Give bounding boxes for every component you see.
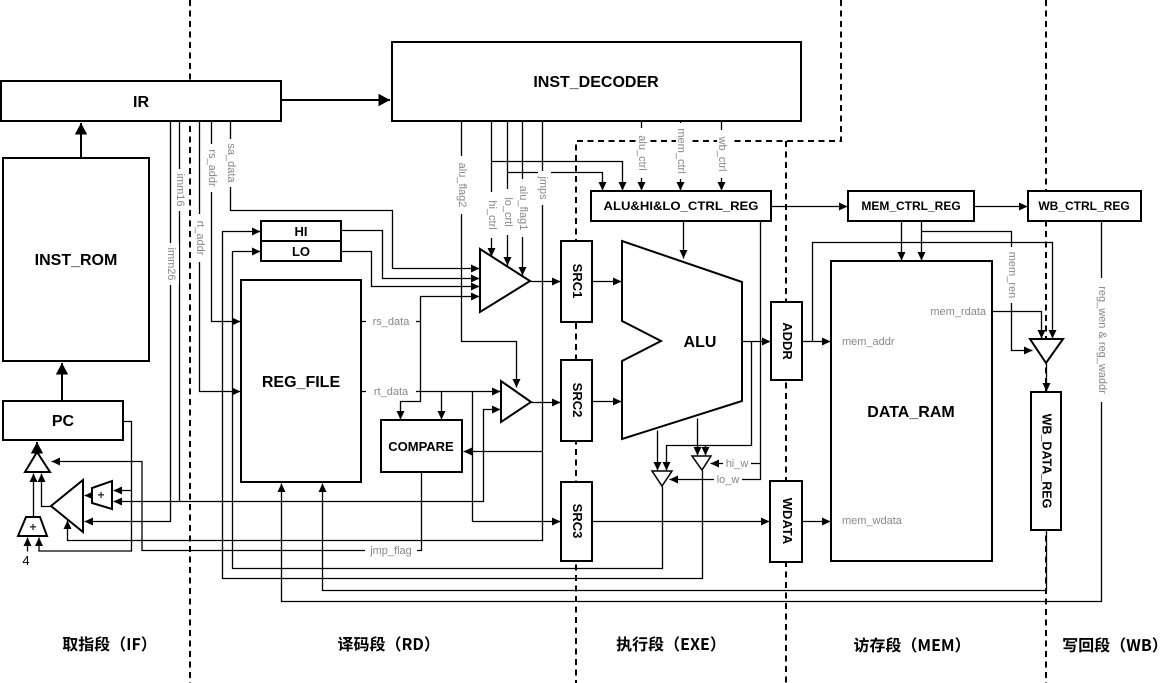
stage boundary dashed IF|RD (189, 0, 191, 683)
wire mem_ren to wb mux (922, 232, 1033, 351)
svg-text:lo_crtl: lo_crtl (502, 197, 514, 226)
wire hi_ctrl to src1mux (491, 122, 493, 257)
svg-text:ADDR: ADDR (780, 322, 795, 360)
svg-text:IR: IR (133, 94, 149, 111)
label rs_data (366, 315, 416, 328)
svg-text:hi_w: hi_w (726, 458, 749, 470)
label hi_w (723, 457, 751, 470)
wire branch-adder out to nextpc-mux (85, 495, 93, 497)
wire rt_data branch to SRC3 (473, 392, 561, 522)
register SRC1 (561, 241, 592, 322)
adder branch-adder (92, 481, 112, 509)
wire const 4 input (27, 538, 29, 552)
memory DATA_RAM (831, 261, 992, 561)
svg-text:mem_addr: mem_addr (842, 336, 895, 348)
svg-text:hi_ctrl: hi_ctrl (486, 200, 498, 229)
svg-text:alu_flag1: alu_flag1 (517, 186, 529, 231)
stage boundary dashed MEM|WB (1045, 0, 1047, 683)
wire rs_data to src1mux (362, 297, 480, 322)
register LO (261, 241, 341, 261)
mux pcmux (25, 452, 50, 472)
port labels rotated (165, 123, 1110, 402)
svg-text:lo_w: lo_w (717, 474, 740, 486)
svg-text:WDATA: WDATA (780, 498, 795, 545)
svg-text:HI: HI (295, 224, 308, 239)
adder plus4-adder (18, 517, 47, 536)
wire WDATA out to DATA_RAM (803, 521, 831, 523)
decoder INST_DECODER (392, 42, 801, 121)
wire SRC1 out to ALU (593, 281, 622, 283)
wire ALU out to ADDR (743, 341, 771, 343)
wire plus4-adder out to pcmux (33, 474, 35, 518)
svg-text:rt_addr: rt_addr (194, 221, 206, 256)
register HI (261, 221, 341, 241)
mux hiw mux (692, 456, 711, 470)
wire rs_addr to REG_FILE (212, 122, 241, 322)
mux src1mux (480, 249, 530, 312)
wire ctrlreg out to MEM_CTRL_REG (772, 206, 848, 208)
wire SRC2 out to ALU (593, 401, 622, 403)
wire jmps from decoder to nextpc-mux (68, 122, 543, 541)
svg-text:alu_ctrl: alu_ctrl (636, 135, 648, 170)
svg-text:reg_wen & reg_waddr: reg_wen & reg_waddr (1096, 286, 1108, 394)
label rt_addr (194, 214, 208, 262)
wire IR to INST_DECODER (282, 99, 391, 101)
label alu_flag2 (456, 156, 470, 214)
svg-text:mem_wdata: mem_wdata (842, 515, 903, 527)
wire LO out to src1mux (342, 252, 480, 287)
svg-text:WB_DATA_REG: WB_DATA_REG (1040, 414, 1054, 509)
svg-text:+: + (29, 520, 36, 534)
wire wb mux out to WB_DATA_REG (1046, 364, 1048, 392)
register WB_CTRL_REG (1028, 191, 1141, 221)
wire lo_crtl branch to ctrlreg (508, 173, 603, 191)
stage label 访存段（MEM） (854, 637, 960, 652)
stage label 写回段（WB） (1063, 637, 1157, 652)
wire mem_rdata to wb mux (993, 312, 1042, 339)
label alu_flag1 (517, 179, 531, 237)
wire MEM_CTRL_REG to DATA_RAM 2 (921, 222, 923, 261)
wire hiw mux out to HI (223, 232, 703, 579)
wire jmp_flag from COMPARE to pcmux select (52, 462, 422, 551)
register IR (1, 81, 281, 121)
wire imm16 to branch-adder (114, 501, 180, 503)
wire sa_data to src1mux (231, 122, 480, 269)
register SRC2 (561, 360, 592, 441)
svg-text:MEM_CTRL_REG: MEM_CTRL_REG (861, 199, 960, 213)
register ADDR (771, 302, 802, 380)
svg-text:rt_data: rt_data (374, 386, 409, 398)
mux wb mux (1030, 339, 1063, 363)
svg-text:DATA_RAM: DATA_RAM (867, 404, 954, 421)
comparator COMPARE (381, 420, 462, 472)
alu ALU (622, 241, 742, 439)
svg-text:PC: PC (52, 413, 75, 430)
svg-text:INST_ROM: INST_ROM (35, 252, 118, 269)
wire rt_addr to REG_FILE (200, 122, 241, 392)
svg-text:WB_CTRL_REG: WB_CTRL_REG (1038, 199, 1129, 213)
mux src2mux (501, 381, 531, 422)
wire alu_flag2 to src2mux (462, 122, 517, 388)
svg-text:alu_flag2: alu_flag2 (456, 163, 468, 208)
wire src1mux out to SRC1 (531, 281, 561, 283)
wire INST_ROM to IR (80, 123, 82, 158)
mux nextpc-mux (51, 480, 83, 532)
wire mem_ctrl to ctrlreg (680, 122, 682, 191)
wire rs_data branch to COMPARE (401, 322, 421, 420)
mux low mux (652, 471, 672, 486)
svg-text:SRC1: SRC1 (570, 264, 585, 299)
label mem_ren (1006, 247, 1020, 303)
wire ALU out branch to muxes (667, 342, 752, 471)
stage boundary dashed RD|EXE (576, 0, 841, 683)
label imm26 (165, 243, 179, 285)
label lo_w (714, 473, 742, 486)
svg-text:ALU: ALU (684, 334, 717, 351)
svg-text:ALU&HI&LO_CTRL_REG: ALU&HI&LO_CTRL_REG (604, 199, 759, 213)
wire addr bypass to wb mux (813, 243, 1053, 342)
wire lo_crtl to src1mux (507, 122, 509, 266)
wire ADDR out to DATA_RAM (803, 341, 831, 343)
svg-text:sa_data: sa_data (225, 143, 237, 183)
memory INST_ROM (3, 158, 149, 361)
svg-text:mem_ren: mem_ren (1006, 252, 1018, 298)
register WDATA (770, 481, 802, 562)
svg-text:SRC2: SRC2 (570, 383, 585, 418)
wire hi_ctrl branch to ctrlreg (492, 162, 623, 191)
wire hi_w control branch (711, 463, 761, 465)
svg-text:REG_FILE: REG_FILE (262, 374, 341, 391)
register MEM_CTRL_REG (848, 191, 974, 221)
svg-text:LO: LO (292, 244, 310, 259)
label mem_ctrl (675, 123, 689, 179)
label rt_data (366, 385, 416, 398)
svg-text:COMPARE: COMPARE (388, 439, 454, 454)
port labels horizontal (22, 306, 986, 568)
wire hi_w lo_w controls from ctrlreg (670, 222, 761, 480)
wire rt_data branch to COMPARE (441, 392, 443, 420)
svg-text:jmps: jmps (537, 175, 549, 200)
wire PC to INST_ROM (61, 363, 63, 401)
box titles (35, 74, 1130, 545)
label rs_addr (206, 144, 220, 192)
wire pcmux to PC (36, 442, 38, 452)
label jmp_flag (365, 543, 417, 557)
register SRC3 (561, 482, 592, 561)
svg-text:4: 4 (22, 553, 29, 568)
register file REG_FILE (241, 280, 361, 482)
register ALU&HI&LO_CTRL_REG (591, 191, 771, 221)
wire jmps branch to COMPARE (464, 451, 543, 453)
svg-text:+: + (97, 488, 104, 502)
svg-text:mem_rdata: mem_rdata (930, 306, 987, 318)
svg-text:imm16: imm16 (174, 173, 186, 206)
wire ALU to hiw mux (697, 419, 699, 456)
wire wb_ctrl to ctrlreg (721, 122, 723, 191)
wire imm26 to nextpc-mux (85, 122, 171, 522)
label wb_ctrl (716, 130, 730, 178)
wire HI out to src1mux (342, 231, 480, 279)
wire alu_flag1 to src1mux (522, 122, 524, 276)
wire reg_wen reg_waddr to REG_FILE (282, 222, 1102, 602)
svg-text:wb_ctrl: wb_ctrl (716, 136, 728, 172)
svg-text:rs_data: rs_data (373, 316, 411, 328)
wire ALU to low mux (657, 431, 659, 471)
svg-text:imm26: imm26 (165, 247, 177, 280)
wire WB_DATA_REG out to REG_FILE (323, 484, 1047, 591)
label lo_crtl (502, 189, 516, 235)
label jmps (537, 171, 551, 205)
wire low mux out to LO (233, 252, 663, 569)
label reg_wen & reg_waddr (1096, 278, 1110, 402)
svg-text:jmp_flag: jmp_flag (369, 545, 412, 557)
label imm16 (174, 169, 188, 211)
wire imm16 vertical (179, 122, 181, 502)
stage boundary dashed EXE|MEM (785, 141, 787, 683)
svg-text:mem_ctrl: mem_ctrl (675, 128, 687, 173)
svg-text:SRC3: SRC3 (570, 504, 585, 539)
label hi_ctrl (486, 192, 500, 238)
wire src2mux out to SRC2 (532, 402, 561, 404)
svg-text:rs_addr: rs_addr (206, 149, 218, 187)
wire alu_ctrl to ctrlreg (641, 122, 643, 191)
wire ctrlreg to ALU (683, 222, 685, 259)
wire MEM_CTRL_REG to DATA_RAM (901, 222, 903, 261)
wire imm16 to src2mux (180, 410, 501, 502)
wire ALU branch to hiw mux (705, 446, 707, 456)
svg-text:INST_DECODER: INST_DECODER (533, 74, 659, 91)
register WB_DATA_REG (1031, 392, 1061, 530)
stage label 取指段（IF） (63, 636, 146, 651)
wire PC branch to branch-adder (114, 490, 132, 492)
stage label 执行段（EXE） (617, 636, 716, 651)
wire PC out to adders (39, 422, 132, 552)
wire MEM_CTRL_REG to WB_CTRL_REG (975, 206, 1028, 208)
wire nextpc-mux out to pcmux (42, 474, 52, 507)
wire SRC3 out to WDATA (593, 521, 770, 523)
register PC (3, 401, 123, 440)
label alu_ctrl (636, 128, 650, 178)
wire rt_data to src2mux (362, 391, 501, 393)
stage label 译码段（RD） (338, 636, 429, 651)
label sa_data (225, 139, 239, 187)
